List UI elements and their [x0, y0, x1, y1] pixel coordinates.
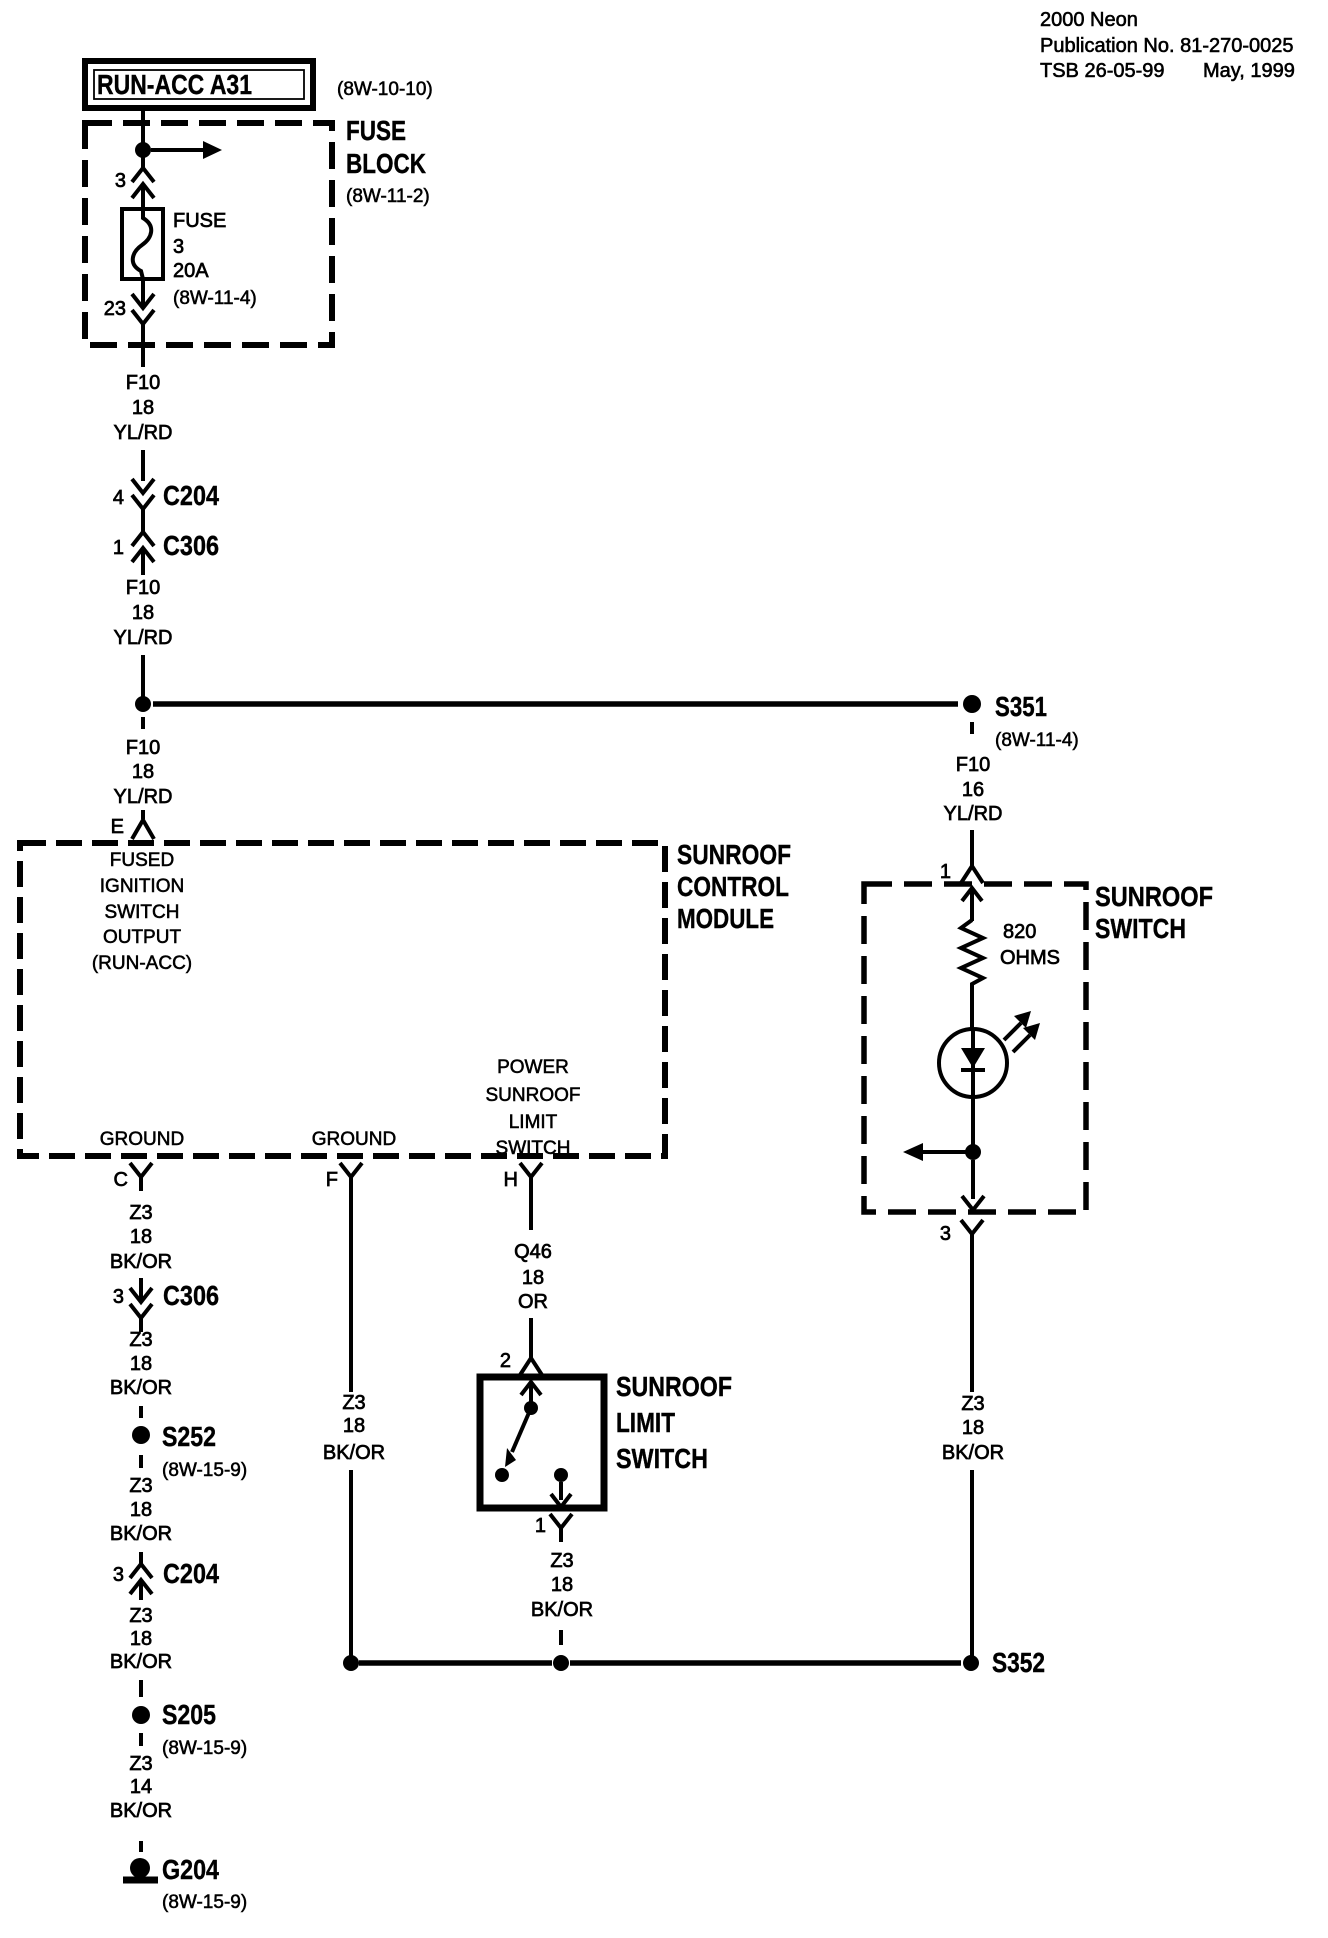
sunroof limit switch label — [616, 1371, 732, 1474]
svg-text:1: 1 — [113, 537, 124, 559]
svg-text:OHMS: OHMS — [1000, 947, 1060, 969]
junction dot (split to S351) — [135, 696, 151, 712]
svg-text:14: 14 — [130, 1776, 152, 1798]
svg-text:IGNITION: IGNITION — [100, 876, 184, 897]
ground bus wire right segment — [570, 1660, 961, 1666]
wire (dash) — [139, 1406, 143, 1418]
wire label Z3 18 BK/OR (pin F) — [323, 1392, 385, 1464]
svg-text:SUNROOF: SUNROOF — [616, 1371, 732, 1402]
wire (dash) — [559, 1630, 563, 1645]
sunroof switch exit arrow — [962, 1160, 984, 1210]
svg-text:S205: S205 — [162, 1699, 216, 1730]
svg-text:1: 1 — [940, 861, 951, 883]
svg-text:18: 18 — [130, 1226, 152, 1248]
junction dot on A31 feed — [135, 142, 151, 158]
svg-text:POWER: POWER — [497, 1057, 569, 1078]
arrow to other circuits — [151, 141, 222, 159]
svg-text:18: 18 — [551, 1574, 573, 1596]
module internal label POWER SUNROOF LIMIT SWITCH — [486, 1057, 581, 1159]
svg-text:18: 18 — [132, 761, 154, 783]
svg-text:BK/OR: BK/OR — [110, 1377, 172, 1399]
connector pin 23 symbol (down) — [132, 279, 154, 367]
svg-text:OUTPUT: OUTPUT — [103, 927, 182, 948]
limit switch left contact dot — [495, 1468, 509, 1482]
svg-text:YL/RD: YL/RD — [944, 803, 1003, 825]
limit switch arm (moving contact) — [505, 1408, 531, 1467]
svg-text:F10: F10 — [126, 372, 160, 394]
fuse block label — [346, 115, 430, 207]
svg-text:S252: S252 — [162, 1421, 216, 1452]
svg-text:RUN-ACC A31: RUN-ACC A31 — [97, 69, 252, 100]
sunroof limit switch enclosure — [480, 1377, 604, 1508]
wire label Z3 18 BK/OR (limit switch) — [531, 1550, 593, 1621]
svg-text:C204: C204 — [163, 480, 219, 511]
svg-text:YL/RD: YL/RD — [114, 627, 173, 649]
svg-text:BK/OR: BK/OR — [110, 1523, 172, 1545]
module internal label FUSED IGNITION SWITCH OUTPUT (RUN-ACC) — [92, 850, 192, 974]
svg-text:SWITCH: SWITCH — [1095, 913, 1186, 944]
svg-text:FUSED: FUSED — [110, 850, 174, 871]
svg-text:(8W-15-9): (8W-15-9) — [162, 1738, 247, 1759]
svg-text:2: 2 — [500, 1350, 511, 1372]
svg-text:TSB 26-05-99: TSB 26-05-99 — [1040, 60, 1165, 82]
wire label Z3 18 BK/OR (sunroof switch) — [942, 1393, 1004, 1464]
svg-text:G204: G204 — [162, 1854, 219, 1885]
module internal label GROUND (pin F) — [312, 1129, 396, 1150]
splice S352 — [963, 1647, 1045, 1678]
svg-text:GROUND: GROUND — [100, 1129, 184, 1150]
svg-text:BK/OR: BK/OR — [531, 1599, 593, 1621]
splice S205 — [132, 1699, 247, 1759]
svg-text:18: 18 — [130, 1628, 152, 1650]
resistor value label 820 OHMS — [1000, 921, 1060, 969]
svg-text:(8W-11-2): (8W-11-2) — [346, 186, 430, 207]
connector C306 pin 3 — [113, 1278, 219, 1332]
svg-text:2000 Neon: 2000 Neon — [1040, 9, 1138, 31]
svg-text:4: 4 — [113, 487, 124, 509]
svg-text:18: 18 — [522, 1267, 544, 1289]
pin F of module — [326, 1163, 362, 1191]
wire — [141, 450, 145, 481]
wire — [970, 1248, 974, 1392]
wire (dashed hint below junction) — [141, 717, 145, 729]
svg-text:S351: S351 — [995, 691, 1047, 722]
svg-text:(8W-11-4): (8W-11-4) — [995, 730, 1079, 751]
svg-text:(8W-15-9): (8W-15-9) — [162, 1892, 247, 1913]
svg-text:(8W-11-4): (8W-11-4) — [173, 288, 257, 309]
svg-text:3: 3 — [113, 1286, 124, 1308]
svg-text:Z3: Z3 — [129, 1605, 152, 1627]
svg-text:18: 18 — [130, 1499, 152, 1521]
ground bus wire left segment — [359, 1660, 552, 1666]
svg-text:YL/RD: YL/RD — [114, 422, 173, 444]
svg-text:Z3: Z3 — [129, 1753, 152, 1775]
wire from RUN-ACC A31 into fuse block — [141, 108, 145, 144]
svg-text:3: 3 — [113, 1564, 124, 1586]
wire — [970, 1470, 974, 1656]
svg-text:3: 3 — [940, 1223, 951, 1245]
node RUN-ACC A31 — [85, 61, 313, 108]
svg-text:F10: F10 — [956, 754, 990, 776]
wire to S351 — [153, 701, 958, 707]
sunroof switch enclosure — [864, 884, 1086, 1212]
svg-text:S352: S352 — [992, 1647, 1045, 1678]
sunroof switch entry arrow — [962, 888, 982, 921]
svg-text:C: C — [114, 1169, 128, 1191]
fuse block enclosure — [85, 123, 332, 345]
junction dot (limit switch to ground bus) — [553, 1655, 569, 1671]
svg-text:Q46: Q46 — [514, 1241, 552, 1263]
wire (dash) — [139, 1733, 143, 1746]
wire — [349, 1470, 353, 1657]
svg-text:H: H — [504, 1169, 518, 1191]
svg-text:SUNROOF: SUNROOF — [677, 839, 791, 870]
wire (dash below S351) — [970, 722, 974, 734]
svg-text:16: 16 — [962, 779, 984, 801]
wire label Z3 18 BK/OR — [110, 1605, 172, 1673]
resistor 820 ohms — [961, 920, 983, 988]
wire label F10 18 YL/RD — [114, 737, 173, 808]
svg-text:BK/OR: BK/OR — [110, 1251, 172, 1273]
svg-text:FUSE: FUSE — [346, 115, 406, 146]
svg-text:3: 3 — [115, 170, 126, 192]
fuse F3 symbol — [122, 209, 163, 279]
svg-text:820: 820 — [1003, 921, 1036, 943]
svg-text:OR: OR — [518, 1291, 548, 1313]
svg-text:(8W-10-10): (8W-10-10) — [337, 79, 433, 100]
wire label Z3 18 BK/OR (pin C) — [110, 1202, 172, 1273]
svg-text:Z3: Z3 — [961, 1393, 984, 1415]
splice S252 — [132, 1421, 247, 1481]
pin 1 of limit switch — [535, 1514, 572, 1542]
svg-text:SUNROOF: SUNROOF — [486, 1085, 581, 1106]
svg-text:1: 1 — [535, 1515, 546, 1537]
wire (dash) — [139, 1841, 143, 1852]
wire (dash) — [139, 1680, 143, 1697]
svg-text:18: 18 — [130, 1353, 152, 1375]
limit switch entry arrow — [521, 1382, 541, 1404]
pin 2 of limit switch — [500, 1350, 542, 1375]
svg-text:18: 18 — [132, 397, 154, 419]
sunroof control module enclosure — [20, 843, 665, 1156]
wire resistor to LED — [970, 988, 974, 1030]
svg-text:F10: F10 — [126, 577, 160, 599]
svg-text:C306: C306 — [163, 530, 219, 561]
svg-text:(RUN-ACC): (RUN-ACC) — [92, 953, 192, 974]
connector pin 3 symbol (up) — [132, 156, 154, 209]
svg-text:BK/OR: BK/OR — [110, 1800, 172, 1822]
wire label Q46 18 OR — [514, 1241, 552, 1313]
svg-text:Z3: Z3 — [129, 1475, 152, 1497]
pin 1 of sunroof switch — [940, 858, 983, 883]
svg-text:BK/OR: BK/OR — [323, 1442, 385, 1464]
svg-text:Z3: Z3 — [342, 1392, 365, 1414]
wire — [529, 1318, 533, 1352]
wire label F10 16 YL/RD — [944, 754, 1003, 825]
limit switch pivot dot — [524, 1401, 538, 1415]
svg-text:Publication No. 81-270-0025: Publication No. 81-270-0025 — [1040, 35, 1294, 57]
wire label Z3 14 BK/OR — [110, 1753, 172, 1822]
wiper arrow — [903, 1143, 966, 1161]
sunroof switch label — [1095, 881, 1213, 944]
junction dot in sunroof switch — [965, 1144, 981, 1160]
wire from pin F down — [349, 1191, 353, 1392]
svg-text:SUNROOF: SUNROOF — [1095, 881, 1213, 912]
wire label Z3 18 BK/OR — [110, 1475, 172, 1545]
svg-text:BK/OR: BK/OR — [110, 1651, 172, 1673]
pin C of module — [114, 1163, 152, 1191]
connector C306 pin 1 — [113, 530, 219, 575]
svg-text:(8W-15-9): (8W-15-9) — [162, 1460, 247, 1481]
svg-text:E: E — [111, 816, 124, 838]
svg-text:BK/OR: BK/OR — [942, 1442, 1004, 1464]
svg-text:23: 23 — [104, 298, 126, 320]
svg-text:F: F — [326, 1169, 338, 1191]
svg-text:Z3: Z3 — [129, 1202, 152, 1224]
reference (8W-10-10) — [337, 79, 433, 100]
svg-text:18: 18 — [343, 1415, 365, 1437]
wire from pin H down — [529, 1191, 533, 1230]
pin 3 of sunroof switch — [940, 1220, 983, 1248]
fuse value label FUSE 3 20A (8W-11-4) — [173, 210, 257, 309]
wire label Z3 18 BK/OR — [110, 1329, 172, 1399]
title block text — [1040, 9, 1295, 82]
splice S351 — [963, 691, 1079, 751]
pin E of module — [111, 810, 154, 839]
svg-text:18: 18 — [962, 1417, 984, 1439]
pin 23 label (fuse block) — [104, 298, 126, 320]
svg-text:20A: 20A — [173, 260, 209, 282]
pin 3 label (fuse block) — [115, 170, 126, 192]
limit switch right contact dot — [554, 1468, 568, 1482]
connector C204 pin 4 — [113, 479, 219, 534]
wire — [141, 655, 145, 697]
svg-text:SWITCH: SWITCH — [616, 1443, 708, 1474]
svg-text:FUSE: FUSE — [173, 210, 226, 232]
wire (dash) — [139, 1455, 143, 1468]
junction dot (F to ground bus) — [343, 1655, 359, 1671]
module internal label GROUND (pin C) — [100, 1129, 184, 1150]
wire label F10 18 YL/RD — [114, 577, 173, 649]
svg-text:CONTROL: CONTROL — [677, 871, 789, 902]
svg-text:LIMIT: LIMIT — [509, 1112, 558, 1133]
wire — [970, 830, 974, 858]
svg-text:SWITCH: SWITCH — [105, 902, 180, 923]
svg-text:MODULE: MODULE — [677, 903, 774, 934]
svg-text:May, 1999: May, 1999 — [1203, 60, 1295, 82]
ground G204 — [123, 1854, 247, 1913]
svg-text:LIMIT: LIMIT — [616, 1407, 675, 1438]
svg-text:SWITCH: SWITCH — [496, 1138, 571, 1159]
svg-text:Z3: Z3 — [550, 1550, 573, 1572]
svg-text:C204: C204 — [163, 1558, 219, 1589]
svg-text:3: 3 — [173, 236, 184, 258]
svg-text:GROUND: GROUND — [312, 1129, 396, 1150]
svg-text:18: 18 — [132, 602, 154, 624]
connector C204 pin 3 — [113, 1552, 219, 1600]
pin H of module — [504, 1163, 542, 1191]
LED indicator — [939, 1029, 1007, 1146]
svg-text:YL/RD: YL/RD — [114, 786, 173, 808]
svg-text:F10: F10 — [126, 737, 160, 759]
module label SUNROOF CONTROL MODULE — [677, 839, 791, 934]
limit switch exit arrow — [551, 1482, 571, 1507]
wire label F10 18 YL/RD — [114, 372, 173, 444]
svg-text:C306: C306 — [163, 1280, 219, 1311]
svg-text:BLOCK: BLOCK — [346, 148, 426, 179]
svg-text:Z3: Z3 — [129, 1329, 152, 1351]
LED light emission arrows — [1004, 1011, 1040, 1052]
